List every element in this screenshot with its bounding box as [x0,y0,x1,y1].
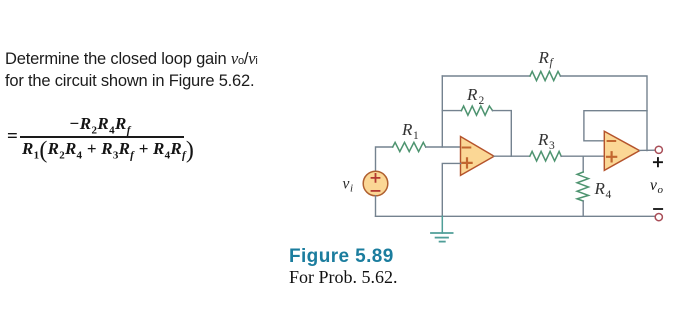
wire: U2 output to + terminal [640,149,656,151]
svg-text:R: R [466,85,478,104]
wire: U1 output to R3 left [494,155,530,157]
op-amp U2 [604,131,639,170]
svg-text:R: R [537,130,549,149]
resistor R1 [393,142,426,151]
label + [654,158,662,166]
caption Figure 5.89 [289,246,394,268]
terminal + (output top) [655,146,662,153]
wire: Rf row right segment and right vertical down to output node [560,76,647,151]
op-amp U1 [461,137,495,176]
wire: U2 inverting input feedback loop to output node [584,111,647,141]
resistor Rf [530,71,560,80]
problem statement text [5,49,305,91]
svg-text:v: v [650,177,657,194]
resistor R4 [577,156,588,216]
svg-text:o: o [658,184,664,196]
svg-text:2: 2 [479,95,485,107]
ground [431,216,453,241]
wire: R2 row left lead from node A [442,110,461,112]
wire: U1 non-inverting input to ground rail [442,163,460,216]
wire: source top to R1 left [376,147,393,171]
terminal - (output bottom) [655,214,662,221]
svg-text:4: 4 [606,189,612,201]
svg-text:1: 1 [413,130,419,142]
label minus [654,208,662,210]
wire: R2 right lead down to U1 output row [493,111,512,157]
caption For Prob. 5.62. [289,267,398,288]
wire: R3 right to U2 non-inverting input [561,155,604,157]
voltage source vi [363,171,388,196]
svg-text:i: i [350,183,353,195]
resistor R3 [530,151,561,161]
svg-text:v: v [343,176,350,193]
svg-text:f: f [550,57,555,69]
gain formula [0,0,1,1]
wire: R1 right to op-amp U1 inverting input [426,146,461,148]
wire: bottom rail [376,215,656,217]
wire: node A vertical (inverting input up to R2 and Rf rows) [441,76,443,147]
svg-text:3: 3 [549,140,555,152]
svg-text:R: R [538,48,550,67]
wire: Rf row left segment [442,75,530,77]
svg-text:R: R [594,179,606,198]
svg-text:R: R [401,120,413,139]
resistor R2 [461,106,492,115]
wire: source bottom to ground rail [375,196,377,217]
